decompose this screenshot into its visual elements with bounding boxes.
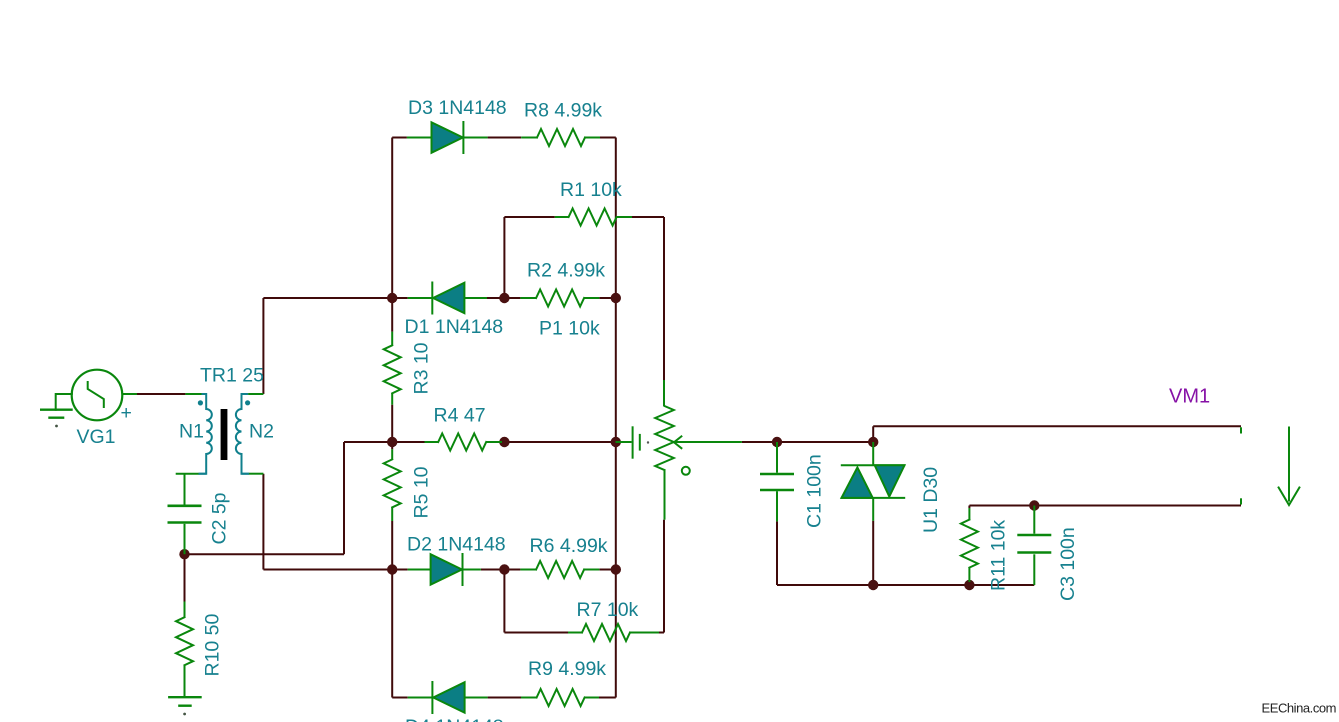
svg-text:+: + xyxy=(121,402,132,424)
svg-text:R7 10k: R7 10k xyxy=(577,599,639,621)
svg-text:R11 10k: R11 10k xyxy=(988,520,1010,591)
svg-text:VG1: VG1 xyxy=(77,426,116,448)
svg-text:C3 100n: C3 100n xyxy=(1057,527,1079,601)
svg-text:R9 4.99k: R9 4.99k xyxy=(528,658,606,680)
svg-text:N1: N1 xyxy=(179,421,204,443)
svg-text:C1 100n: C1 100n xyxy=(804,454,826,528)
svg-text:R5 10: R5 10 xyxy=(411,466,433,518)
svg-text:R6 4.99k: R6 4.99k xyxy=(530,535,608,557)
svg-text:R4 47: R4 47 xyxy=(434,405,486,427)
svg-text:VM1: VM1 xyxy=(1169,386,1210,408)
svg-text:D3 1N4148: D3 1N4148 xyxy=(408,97,507,119)
svg-text:R1 10k: R1 10k xyxy=(560,179,622,201)
svg-text:EEChina.com: EEChina.com xyxy=(1262,701,1337,716)
svg-text:D2 1N4148: D2 1N4148 xyxy=(407,534,506,556)
svg-text:TR1 25: TR1 25 xyxy=(200,365,264,387)
svg-text:R8 4.99k: R8 4.99k xyxy=(524,100,602,122)
svg-text:D4 1N4148: D4 1N4148 xyxy=(405,716,504,722)
svg-text:N2: N2 xyxy=(249,421,274,443)
svg-text:R2 4.99k: R2 4.99k xyxy=(527,260,605,282)
svg-text:D1 1N4148: D1 1N4148 xyxy=(405,316,504,338)
svg-text:P1 10k: P1 10k xyxy=(539,318,600,340)
svg-text:R10 50: R10 50 xyxy=(202,613,224,676)
svg-text:R3 10: R3 10 xyxy=(411,342,433,394)
svg-text:C2 5p: C2 5p xyxy=(209,492,231,544)
svg-text:U1 D30: U1 D30 xyxy=(920,467,942,533)
